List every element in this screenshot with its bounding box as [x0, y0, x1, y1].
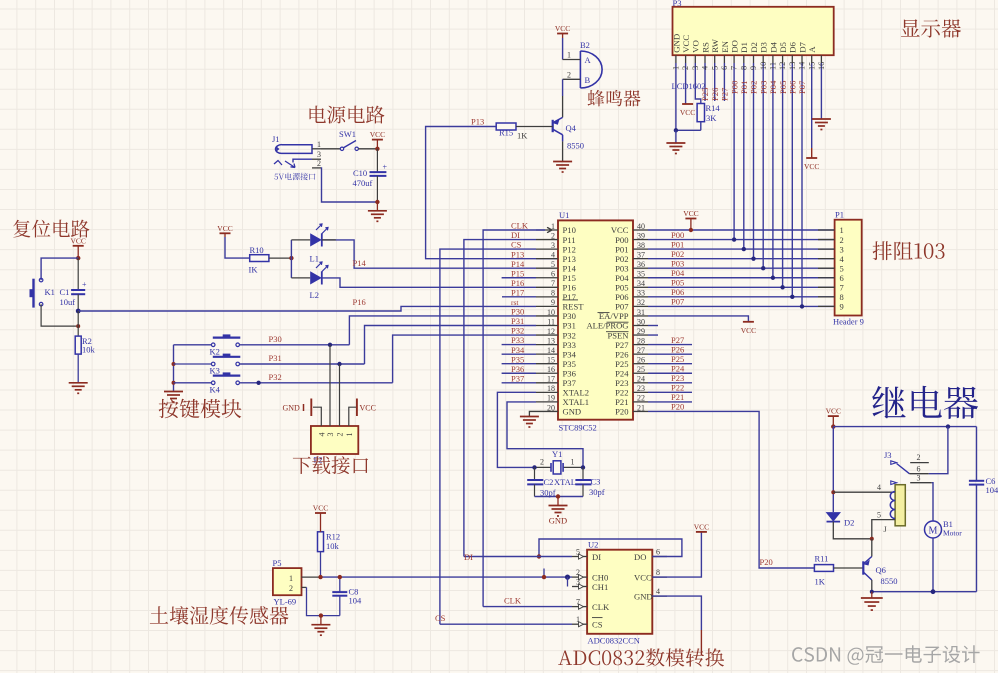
push button K2: [174, 344, 212, 346]
pin 3 of U2 (CH1): [572, 586, 587, 588]
wire P2 pin4 to VCC bar: [349, 407, 357, 426]
svg-text:3: 3: [576, 577, 580, 586]
title: 排阻103: [873, 241, 945, 260]
svg-text:2: 2: [681, 66, 690, 70]
svg-text:DI: DI: [592, 552, 601, 562]
svg-text:Q4: Q4: [566, 123, 577, 133]
svg-text:4: 4: [551, 250, 555, 259]
svg-text:P15: P15: [563, 273, 576, 283]
svg-text:P36: P36: [511, 364, 524, 374]
svg-text:Y1: Y1: [552, 449, 562, 459]
pin 5 of U1: [536, 267, 558, 269]
svg-text:8550: 8550: [567, 141, 584, 151]
title: 土壤湿度传感器: [150, 606, 289, 625]
wire LCD pin1 GND net: [675, 63, 677, 130]
svg-text:D6: D6: [788, 41, 798, 52]
svg-text:10: 10: [547, 308, 555, 317]
wire VCC to buzzer pin1: [562, 38, 564, 60]
svg-text:VCC: VCC: [826, 407, 841, 416]
LED L1: [291, 239, 310, 241]
svg-text:D7: D7: [797, 41, 807, 52]
svg-text:CLK: CLK: [504, 596, 522, 606]
pin 2 of U2 (CH0): [572, 576, 587, 578]
wire P03: [648, 267, 835, 269]
svg-text:3: 3: [840, 244, 844, 254]
ground (relay): [871, 592, 873, 598]
svg-text:VCC: VCC: [683, 209, 698, 218]
svg-text:CLK: CLK: [511, 221, 529, 231]
svg-text:P13: P13: [511, 249, 524, 259]
svg-text:STC89C52: STC89C52: [559, 423, 597, 433]
svg-text:P13: P13: [563, 254, 576, 264]
ground (power circuit): [376, 202, 378, 211]
pin 21 of U1: [633, 410, 648, 412]
svg-text:P02: P02: [615, 254, 628, 264]
power port VCC (buzzer): [557, 33, 568, 35]
svg-text:GND: GND: [283, 403, 301, 412]
power port VCC (U1 pin40) + wire to P1 pin1: [648, 229, 835, 231]
power port VCC (reset): [73, 245, 84, 247]
svg-text:P32: P32: [563, 330, 576, 340]
svg-text:CS: CS: [592, 620, 603, 630]
pin 1 of P1: [818, 229, 835, 231]
svg-text:GND: GND: [634, 592, 653, 602]
svg-text:P06: P06: [788, 80, 798, 94]
svg-text:C1: C1: [60, 287, 70, 297]
svg-text:DI: DI: [511, 230, 520, 240]
pin 1 of U1: [536, 229, 558, 231]
svg-text:6: 6: [917, 464, 921, 473]
wire soil gnd rail: [307, 587, 340, 615]
svg-text:P05: P05: [671, 278, 684, 288]
svg-text:470uf: 470uf: [353, 178, 373, 188]
svg-text:DO: DO: [730, 40, 740, 53]
svg-text:P22: P22: [615, 388, 628, 398]
wire VCC node to C10: [376, 149, 378, 172]
svg-text:P30: P30: [511, 307, 524, 317]
pin 6 of P3: [723, 55, 725, 63]
pin 4 of P1: [818, 258, 835, 260]
svg-text:ADC0832CCN: ADC0832CCN: [588, 636, 640, 646]
pin 4 of U2 (GND): [652, 595, 667, 597]
svg-text:R10: R10: [250, 245, 264, 255]
wire P32 from button: [240, 382, 393, 384]
svg-text:P12: P12: [563, 244, 576, 254]
svg-text:P20: P20: [615, 407, 628, 417]
pin 12 of U1: [536, 334, 558, 336]
svg-text:15: 15: [547, 356, 555, 365]
svg-text:P03: P03: [671, 258, 684, 268]
svg-text:P00: P00: [671, 230, 684, 240]
svg-text:P24: P24: [615, 368, 629, 378]
svg-text:P5: P5: [273, 558, 282, 568]
LED L2: [291, 277, 310, 279]
svg-text:28: 28: [637, 336, 645, 345]
wire buzzer pin2 to Q4 collector: [562, 79, 564, 96]
svg-text:VCC: VCC: [681, 35, 691, 53]
svg-text:D3: D3: [759, 41, 769, 52]
svg-text:P32: P32: [269, 372, 282, 382]
wire button common rail: [173, 345, 175, 392]
svg-text:31: 31: [637, 308, 645, 317]
wire motor bottom: [932, 538, 934, 592]
svg-text:18: 18: [547, 384, 555, 393]
pin 28 of U1: [633, 344, 648, 346]
svg-text:IK: IK: [249, 265, 259, 275]
svg-text:P32: P32: [511, 326, 524, 336]
svg-text:P33: P33: [563, 340, 576, 350]
svg-text:1: 1: [289, 574, 293, 583]
svg-text:5: 5: [840, 263, 844, 273]
relay contact pin 3 + wire to motor: [910, 482, 932, 484]
resistor R10 1K: [250, 255, 269, 262]
svg-text:C3: C3: [591, 477, 601, 487]
svg-text:10: 10: [759, 62, 768, 70]
svg-text:P06: P06: [615, 292, 629, 302]
stub ALE: [648, 325, 658, 327]
pin 7 of U2 (CLK): [572, 606, 587, 608]
svg-text:P16: P16: [511, 278, 524, 288]
junction P2 pin taps on button rows: [328, 343, 332, 347]
svg-text:XTAL1: XTAL1: [563, 397, 590, 407]
relay contact common (bottom): [891, 481, 897, 485]
ground (reset): [69, 382, 88, 384]
svg-text:9: 9: [840, 302, 844, 312]
stub PSEN: [648, 334, 658, 336]
wire K1 bottom: [41, 304, 78, 326]
wire U1 XTAL1 to crystal: [507, 402, 583, 468]
capacitor C3 30pf: [582, 467, 584, 480]
title: 复位电路 reset circuit: [13, 220, 89, 238]
resistor R15 1K: [496, 123, 516, 130]
svg-text:P33: P33: [511, 335, 524, 345]
svg-text:VCC: VCC: [360, 403, 376, 412]
svg-text:30: 30: [637, 317, 645, 326]
resistor R14 3K: [695, 63, 701, 104]
pin 7 of P3: [733, 55, 735, 63]
svg-text:P35: P35: [563, 359, 576, 369]
capacitor C10 470uf: [370, 171, 387, 173]
svg-text:P26: P26: [671, 344, 684, 354]
svg-text:VCC: VCC: [370, 130, 385, 139]
svg-text:D1: D1: [739, 42, 749, 53]
pin 15 of U1: [536, 363, 558, 365]
svg-text:32: 32: [637, 298, 645, 307]
svg-text:REST: REST: [563, 302, 585, 312]
svg-text:10k: 10k: [326, 541, 340, 551]
wire CS net: [440, 623, 572, 625]
wire CLK net: [483, 606, 572, 608]
svg-text:13: 13: [547, 336, 555, 345]
svg-text:P25: P25: [700, 88, 710, 101]
svg-text:VCC: VCC: [217, 224, 232, 233]
svg-text:P05: P05: [778, 81, 788, 94]
pin 35 of U1: [633, 277, 648, 279]
wire P2 pin1 to GND bar: [313, 407, 321, 426]
svg-text:6: 6: [840, 273, 844, 283]
svg-text:U1: U1: [559, 210, 569, 220]
svg-text:3: 3: [317, 150, 321, 159]
ground (LCD pin1): [666, 142, 685, 144]
svg-text:P10: P10: [563, 225, 576, 235]
wire crystal gnd rail: [535, 496, 584, 498]
svg-text:P15: P15: [511, 268, 524, 278]
svg-text:P05: P05: [615, 283, 628, 293]
svg-text:YL-69: YL-69: [274, 597, 297, 607]
svg-text:33: 33: [637, 289, 645, 298]
svg-text:8550: 8550: [881, 576, 898, 586]
watermark CSDN: [792, 645, 980, 665]
wire U2 GND pin down: [652, 596, 701, 630]
wire R2 to ground: [77, 354, 79, 383]
svg-text:J1: J1: [272, 134, 280, 144]
pin 17 of U1: [536, 382, 558, 384]
svg-text:K1: K1: [45, 287, 55, 297]
pin 27 of U1: [633, 353, 648, 355]
svg-text:P35: P35: [511, 354, 524, 364]
pin 11 of P3: [772, 55, 774, 63]
pin 12 of P3: [782, 55, 784, 63]
svg-text:DO: DO: [634, 552, 646, 562]
svg-text:P02: P02: [749, 81, 759, 94]
svg-text:14: 14: [798, 61, 807, 70]
svg-text:B: B: [585, 75, 591, 85]
svg-text:5: 5: [551, 260, 555, 269]
pin 19 of U1: [536, 401, 558, 403]
svg-text:P01: P01: [739, 81, 749, 94]
pin 25 of U1: [633, 372, 648, 374]
wire rst net to U1: [78, 306, 536, 311]
svg-text:22: 22: [637, 394, 645, 403]
svg-text:C10: C10: [353, 168, 367, 178]
svg-text:VCC: VCC: [741, 326, 756, 335]
svg-text:P1: P1: [835, 210, 844, 220]
ground GND (crystal): [557, 497, 559, 506]
svg-text:CS: CS: [511, 240, 522, 250]
svg-text:3: 3: [917, 473, 921, 482]
svg-text:14: 14: [547, 346, 555, 355]
svg-text:P04: P04: [615, 273, 629, 283]
svg-text:R12: R12: [326, 532, 340, 542]
pin 29 of U1: [633, 334, 648, 336]
title: 继电器 relay: [872, 386, 978, 419]
svg-text:R15: R15: [499, 128, 513, 138]
pin 30 of U1: [633, 325, 648, 327]
resistor R11 1K: [814, 565, 833, 572]
pin 13 of U1: [536, 344, 558, 346]
pin 4 of P3: [704, 55, 706, 63]
pin 5 of P3: [714, 55, 716, 63]
pin 16 of P3: [820, 55, 822, 63]
svg-text:1: 1: [571, 458, 575, 467]
net labels P27-P21 + stubs: [648, 344, 692, 346]
svg-text:+: +: [383, 163, 388, 172]
svg-text:37: 37: [637, 250, 645, 259]
svg-text:P06: P06: [671, 287, 684, 297]
svg-text:1: 1: [672, 66, 681, 70]
svg-text:P27: P27: [720, 87, 730, 101]
svg-text:11: 11: [769, 62, 778, 70]
wire P30 from button: [240, 344, 350, 346]
svg-text:36: 36: [637, 260, 645, 269]
svg-text:P20: P20: [760, 557, 773, 567]
svg-text:12: 12: [778, 62, 787, 70]
pin 6 of U2 (DO): [652, 556, 667, 558]
power port VCC (LED): [220, 232, 231, 234]
svg-text:P2: P2: [314, 455, 323, 465]
wire VCC to coil/diode: [832, 427, 834, 512]
svg-text:P31: P31: [511, 316, 524, 326]
svg-text:P24: P24: [671, 363, 685, 373]
wire P00: [648, 239, 835, 241]
svg-text:P14: P14: [353, 258, 367, 268]
pin 5 of P1: [818, 267, 835, 269]
pin 38 of U1: [633, 248, 648, 250]
svg-text:8: 8: [551, 289, 555, 298]
svg-text:11: 11: [547, 317, 555, 326]
svg-text:VCC: VCC: [634, 573, 652, 583]
wire diode to collector node: [833, 522, 872, 539]
ground (buttons): [164, 391, 183, 393]
capacitor C8 104: [339, 577, 341, 592]
svg-text:39: 39: [637, 231, 645, 240]
svg-text:7: 7: [551, 279, 555, 288]
pin 24 of U1: [633, 382, 648, 384]
svg-text:10k: 10k: [82, 345, 96, 355]
pin 10 of U1: [536, 315, 558, 317]
svg-text:P03: P03: [615, 263, 628, 273]
vcc bar port (P2): [356, 399, 358, 417]
svg-text:P31: P31: [563, 321, 576, 331]
pin 8 of P3: [743, 55, 745, 63]
wire P31 from button: [240, 363, 365, 365]
wire Q4 emitter to ground: [562, 141, 564, 161]
svg-text:7: 7: [730, 66, 739, 70]
svg-text:2: 2: [317, 159, 321, 168]
svg-text:B2: B2: [580, 40, 590, 50]
svg-text:27: 27: [637, 346, 645, 355]
power port VCC (LCD pin2): [685, 63, 687, 104]
svg-text:M: M: [929, 525, 938, 536]
svg-text:P30: P30: [269, 334, 282, 344]
svg-text:VCC: VCC: [70, 236, 85, 245]
svg-text:2: 2: [840, 235, 844, 245]
svg-text:P26: P26: [615, 349, 629, 359]
svg-text:P01: P01: [615, 244, 628, 254]
wire VCC to R10: [225, 237, 250, 258]
svg-text:29: 29: [637, 327, 645, 336]
wire L1 to P14 row: [322, 240, 536, 268]
svg-text:34: 34: [637, 279, 645, 288]
pin 9 of U1: [536, 305, 558, 307]
svg-text:P37: P37: [563, 378, 577, 388]
wire SW1 to VCC node: [358, 148, 377, 150]
svg-text:RS: RS: [700, 42, 710, 53]
svg-text:P14: P14: [563, 263, 577, 273]
pin 10 of P3: [762, 55, 764, 63]
svg-text:VCC: VCC: [680, 108, 695, 117]
svg-text:5: 5: [710, 66, 719, 70]
pin 9 of P1: [818, 305, 835, 307]
capacitor C6 104: [976, 427, 978, 481]
svg-text:P04: P04: [671, 268, 685, 278]
pin 22 of U1: [633, 401, 648, 403]
pin 39 of U1: [633, 239, 648, 241]
pin 9 of P3: [753, 55, 755, 63]
svg-text:10uf: 10uf: [60, 297, 76, 307]
svg-text:P14: P14: [511, 259, 525, 269]
svg-text:6: 6: [551, 270, 555, 279]
svg-text:D2: D2: [749, 42, 759, 53]
svg-text:VCC: VCC: [611, 225, 629, 235]
svg-text:R11: R11: [815, 554, 829, 564]
svg-text:2: 2: [567, 70, 571, 79]
svg-text:1: 1: [567, 51, 571, 60]
resistor R2 10k: [75, 336, 81, 354]
svg-text:XTAL: XTAL: [554, 477, 576, 487]
pin 31 of U1: [633, 315, 648, 317]
wire DI from CLK bundle: [464, 556, 572, 558]
wire P07: [648, 305, 835, 307]
svg-text:2: 2: [551, 231, 555, 240]
svg-text:5: 5: [877, 510, 881, 519]
pin 18 of U1: [536, 391, 558, 393]
svg-text:P21: P21: [671, 392, 684, 402]
svg-text:P02: P02: [671, 249, 684, 259]
svg-text:12: 12: [547, 327, 555, 336]
svg-text:CLK: CLK: [592, 602, 610, 612]
svg-text:P07: P07: [615, 302, 629, 312]
svg-text:D2: D2: [844, 518, 854, 528]
svg-text:+: +: [82, 280, 87, 289]
svg-text:K4: K4: [210, 385, 221, 395]
svg-text:P03: P03: [758, 81, 768, 94]
svg-text:P25: P25: [671, 354, 684, 364]
svg-text:15: 15: [807, 62, 816, 70]
net labels P25 P26 P27 on LCD pins 4-6: [704, 63, 706, 101]
pin 40 of U1: [633, 229, 648, 231]
svg-text:24: 24: [637, 375, 645, 384]
svg-text:A: A: [585, 55, 592, 65]
pin 11 of U1: [536, 325, 558, 327]
svg-text:P11: P11: [563, 235, 576, 245]
svg-text:RW: RW: [710, 38, 720, 52]
pin 8 of U2 (VCC): [652, 576, 667, 578]
title: 显示器 display: [901, 19, 961, 38]
svg-text:GND: GND: [563, 407, 582, 417]
LCD data pins D0-D7 vertical wires with net labels P00-P07: [733, 63, 735, 240]
pin 13 of P3: [791, 55, 793, 63]
pin 6 of U1: [536, 277, 558, 279]
svg-text:R14: R14: [706, 103, 721, 113]
wire L2 to P16 row: [322, 278, 536, 287]
wire CH0 net from soil sensor: [321, 576, 573, 578]
svg-text:D5: D5: [778, 41, 788, 52]
wire relay pin4 row: [833, 491, 895, 493]
svg-text:P16: P16: [563, 283, 577, 293]
pin1 input arrow of U1: [545, 227, 552, 232]
svg-text:19: 19: [547, 394, 555, 403]
svg-text:D4: D4: [768, 41, 778, 52]
motor B1: [925, 521, 942, 538]
pin 5 of U2 (DI): [572, 556, 587, 558]
svg-text:VCC: VCC: [804, 162, 819, 171]
svg-text:1K: 1K: [517, 131, 528, 141]
relay contact pin 2: [910, 462, 929, 464]
wire relay VCC rail: [833, 426, 976, 428]
svg-text:4: 4: [317, 433, 326, 437]
pin 3 of U1: [536, 248, 558, 250]
